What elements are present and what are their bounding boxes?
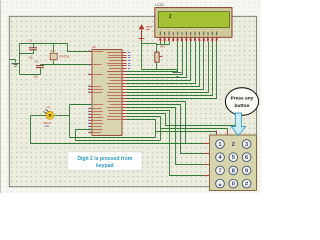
wires MCU to keypad columns (127, 114, 239, 132)
wire LCD supply pins (160, 42, 162, 45)
wire to RV1 top (142, 43, 157, 45)
capacitor C1 (33, 44, 35, 48)
svg-text:8: 8 (232, 168, 235, 174)
svg-text:C1: C1 (29, 39, 33, 43)
LCD LM016L body (155, 8, 232, 38)
svg-text:X1: X1 (51, 49, 55, 53)
ground (contrast) (177, 70, 179, 73)
text box (68, 152, 143, 171)
svg-text:keypad: keypad (96, 163, 114, 169)
wire XTAL1 to MCU (68, 44, 93, 52)
keypad row pin stubs (204, 143, 210, 145)
wire MCU to lamp rail (70, 104, 93, 106)
callout ellipse (225, 88, 258, 116)
MCU left pin stubs (89, 51, 93, 53)
svg-text:Press any: Press any (231, 95, 254, 101)
lamp rail (69, 105, 71, 138)
wire to ground (contrast) (142, 69, 178, 71)
svg-text:U1: U1 (47, 105, 51, 109)
LCD pin stubs (160, 38, 162, 42)
keypad buttons (216, 140, 225, 149)
lamp U1 (55, 115, 70, 117)
svg-text:2: 2 (232, 142, 235, 148)
ground (oscillator) (10, 59, 16, 61)
svg-text:TORCH: TORCH (43, 123, 51, 125)
capacitor C2 (40, 65, 42, 66)
keypad column pin stubs (238, 131, 240, 136)
wire XTAL1 top node (20, 43, 68, 45)
wire under MCU (76, 130, 161, 141)
LCD pin labels (160, 31, 161, 35)
wire XTAL2 to MCU (41, 64, 93, 66)
svg-text:0: 0 (232, 182, 235, 188)
svg-text:1: 1 (218, 142, 221, 148)
svg-text:RV1: RV1 (160, 44, 166, 48)
svg-text:3: 3 (245, 142, 248, 148)
power symbol VCC (139, 24, 145, 29)
svg-text:2: 2 (169, 14, 172, 20)
svg-text:LDR: LDR (45, 126, 50, 128)
wire lamp left (31, 115, 47, 117)
MCU right pin numbers (128, 51, 130, 54)
svg-text:6: 6 (245, 155, 248, 161)
svg-text:7: 7 (218, 168, 221, 174)
wire C2 bottom to rail (20, 74, 41, 76)
wire power rail down (141, 42, 143, 70)
keypad body (210, 135, 257, 191)
svg-text:*: * (219, 183, 222, 190)
left edge line (0, 1, 2, 194)
svg-text:33p: 33p (29, 56, 34, 60)
wires MCU to keypad rows (127, 102, 204, 144)
sheet margin veil (0, 0, 261, 16)
svg-text:C2: C2 (35, 60, 39, 64)
resistor RV1 (156, 44, 158, 53)
svg-text:CRYSTAL: CRYSTAL (59, 56, 70, 59)
wires MCU to LCD bus (127, 42, 178, 72)
MCU left pin names (93, 50, 103, 53)
sheet frame (9, 16, 256, 187)
svg-text:9: 9 (245, 168, 248, 174)
svg-text:LCD1: LCD1 (155, 3, 164, 7)
svg-text:5: 5 (232, 155, 235, 161)
MCU right pin stubs (123, 52, 127, 54)
MCU body (92, 50, 122, 136)
MCU left pin numbers (88, 50, 90, 53)
wire C1 bottom to rail (20, 50, 34, 54)
callout arrow (231, 113, 245, 136)
wire lamp row (31, 143, 204, 145)
wire ground rail (19, 44, 21, 75)
LCD screen (158, 12, 229, 28)
svg-text:button: button (235, 103, 250, 109)
svg-text:Digit 2 is pressed from: Digit 2 is pressed from (77, 156, 132, 162)
svg-text:33p: 33p (34, 75, 39, 79)
grid background (0, 0, 261, 193)
MCU right pin names (107, 51, 121, 54)
svg-text:U2: U2 (92, 45, 96, 49)
crystal X1 (53, 44, 55, 53)
